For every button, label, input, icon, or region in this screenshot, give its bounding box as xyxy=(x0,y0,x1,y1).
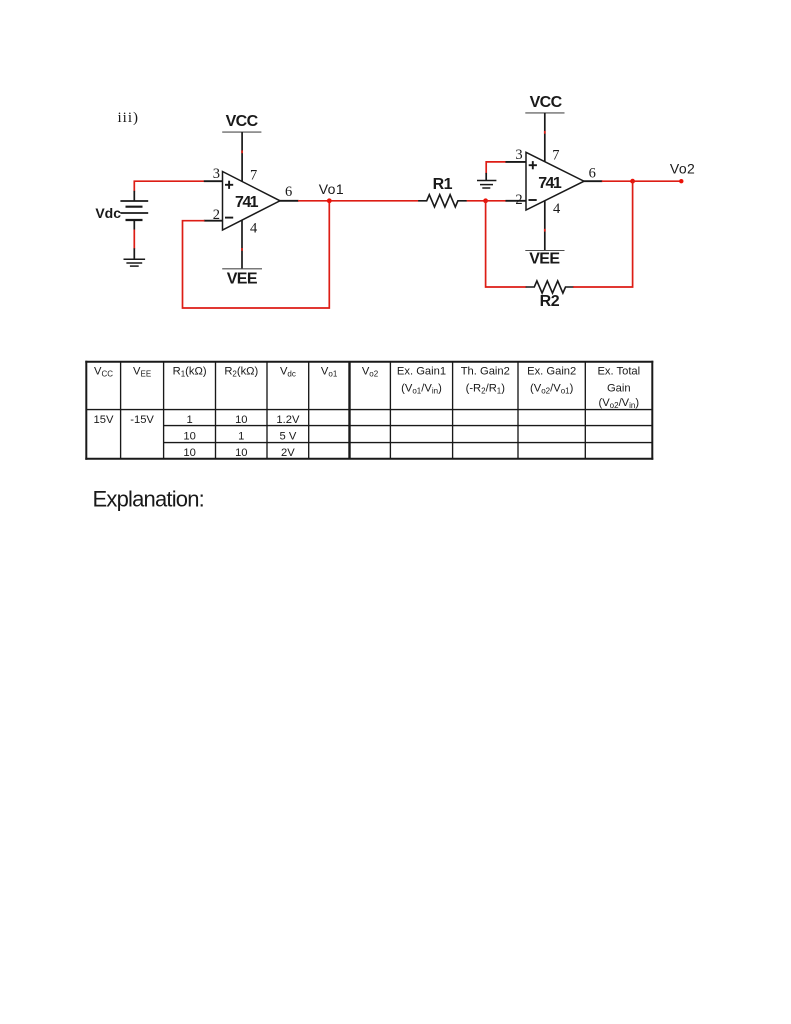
svg-text:1: 1 xyxy=(186,414,192,426)
battery V1 top stem (black) xyxy=(133,191,135,201)
wire U2 pin 4 to VEE xyxy=(544,201,546,251)
svg-text:Th. Gain2: Th. Gain2 xyxy=(461,365,510,377)
node Vo1 junction dot xyxy=(327,198,332,203)
svg-text:Vo1: Vo1 xyxy=(319,181,344,197)
battery V1 top lead wire (red) xyxy=(134,181,204,191)
resistor R2 xyxy=(526,281,574,293)
wire R2 to Vo2 node (red) xyxy=(573,181,633,287)
svg-text:Ex. Total: Ex. Total xyxy=(597,365,640,377)
svg-text:Vo1: Vo1 xyxy=(321,365,338,378)
svg-text:VCC: VCC xyxy=(94,365,113,378)
svg-text:2V: 2V xyxy=(281,447,295,459)
feedback wire U1 output to pin 2 (red) xyxy=(183,201,330,308)
svg-text:6: 6 xyxy=(285,184,292,200)
svg-text:1: 1 xyxy=(238,430,244,442)
svg-text:3: 3 xyxy=(213,166,220,182)
svg-text:7: 7 xyxy=(552,147,559,163)
svg-text:R2: R2 xyxy=(540,293,560,310)
svg-text:R1: R1 xyxy=(433,176,453,193)
svg-text:iii): iii) xyxy=(118,110,140,126)
svg-text:Ex. Gain2: Ex. Gain2 xyxy=(527,365,576,377)
svg-text:15V: 15V xyxy=(94,414,114,426)
red tick on U2 VCC wire xyxy=(544,131,546,134)
wire U1 output stub xyxy=(280,200,299,202)
wire R1 to U2 pin 2 node (red) xyxy=(467,200,486,202)
svg-text:10: 10 xyxy=(183,430,195,442)
ground under battery xyxy=(124,259,146,266)
svg-text:4: 4 xyxy=(553,201,561,217)
wire U1 pin 4 to VEE xyxy=(241,220,243,269)
power symbol VCC (U2) xyxy=(525,94,564,113)
svg-text:(Vo2/Vo1): (Vo2/Vo1) xyxy=(530,383,574,396)
svg-text:-15V: -15V xyxy=(130,414,154,426)
battery V1 bottom stem (black) xyxy=(133,220,135,230)
svg-text:5 V: 5 V xyxy=(280,430,297,442)
op-amp U1 plus marker xyxy=(225,181,233,189)
wire U1 output to R1 (red) xyxy=(298,200,418,202)
svg-text:(-R2/R1): (-R2/R1) xyxy=(466,383,506,396)
red tick on U2 VEE wire xyxy=(544,229,546,232)
svg-text:Vo2: Vo2 xyxy=(670,160,695,176)
wire node to Vo2 terminal (red) xyxy=(633,180,682,182)
ground stem at U2 pin 3 (black) xyxy=(485,173,487,181)
svg-text:7: 7 xyxy=(250,168,257,184)
battery to ground wire (red) xyxy=(133,230,135,250)
svg-text:VCC: VCC xyxy=(226,113,259,130)
wire U2 pin 3 to ground (red) xyxy=(486,162,506,174)
svg-text:1.2V: 1.2V xyxy=(276,414,300,426)
node Vo2 junction dot xyxy=(630,179,635,184)
svg-text:Ex. Gain1: Ex. Gain1 xyxy=(397,365,446,377)
svg-text:R1(kΩ): R1(kΩ) xyxy=(173,365,207,378)
op-amp U2 minus marker xyxy=(529,199,537,201)
svg-text:Vdc: Vdc xyxy=(280,365,296,378)
battery V1 Vdc xyxy=(120,201,148,220)
svg-text:10: 10 xyxy=(235,414,247,426)
wire U1 pin 3 stub xyxy=(204,180,223,182)
feedback wire node to R2 (red) xyxy=(486,201,527,287)
svg-text:6: 6 xyxy=(589,166,596,182)
svg-text:741: 741 xyxy=(235,194,259,211)
results table data text xyxy=(94,414,300,459)
results table grid xyxy=(85,361,653,460)
node U2 inverting input junction dot xyxy=(483,198,488,203)
svg-text:Explanation:: Explanation: xyxy=(93,487,205,512)
node Vo2 terminal dot xyxy=(679,179,683,183)
svg-text:Gain: Gain xyxy=(607,383,631,395)
svg-text:Vo2: Vo2 xyxy=(362,365,379,378)
svg-text:(Vo2/Vin): (Vo2/Vin) xyxy=(598,397,639,410)
ground stem (black) xyxy=(133,248,135,259)
red tick on VEE wire xyxy=(241,248,243,251)
resistor R1 xyxy=(418,195,467,207)
svg-text:2: 2 xyxy=(515,192,522,208)
wire U1 pin 2 stub xyxy=(204,220,223,222)
svg-text:VEE: VEE xyxy=(529,251,560,268)
svg-text:VEE: VEE xyxy=(133,365,151,378)
ground at U2 pin 3 xyxy=(477,181,496,189)
wire U2 pin 2 stub xyxy=(506,200,527,202)
svg-text:VEE: VEE xyxy=(227,271,258,288)
wire U2 output stub xyxy=(584,180,603,182)
svg-text:4: 4 xyxy=(250,221,258,237)
wire U2 pin 3 stub xyxy=(506,161,527,163)
op-amp U2 body xyxy=(526,152,584,210)
results table header text xyxy=(94,365,640,410)
op-amp U1 minus marker xyxy=(225,217,233,219)
op-amp U2 plus marker xyxy=(529,161,537,169)
wire U2 output to node (red) xyxy=(602,180,633,182)
svg-text:VCC: VCC xyxy=(530,94,563,111)
red tick on VCC wire xyxy=(241,150,243,153)
svg-text:(Vo1/Vin): (Vo1/Vin) xyxy=(401,383,442,396)
power symbol VEE (U1) xyxy=(222,269,262,288)
svg-text:R2(kΩ): R2(kΩ) xyxy=(224,365,258,378)
power symbol VEE (U2) xyxy=(525,251,564,268)
svg-text:3: 3 xyxy=(515,147,522,163)
svg-text:10: 10 xyxy=(183,447,195,459)
svg-text:10: 10 xyxy=(235,447,247,459)
power symbol VCC (U1) xyxy=(222,113,261,132)
wire VCC bar to U2 pin 7 xyxy=(544,113,546,162)
svg-text:Vdc: Vdc xyxy=(95,205,121,221)
wire VCC bar to U1 pin 7 xyxy=(241,132,243,181)
op-amp U1 body xyxy=(223,172,281,231)
svg-text:741: 741 xyxy=(538,175,562,192)
wire node to U2 pin 2 (red) xyxy=(486,200,506,202)
